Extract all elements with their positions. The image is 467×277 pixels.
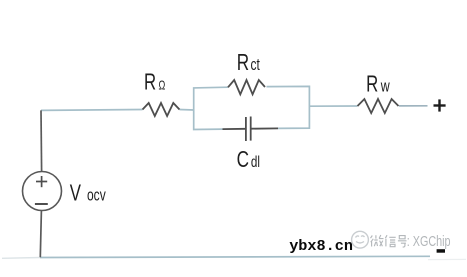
wire: top-left horizontal from corner to R-ohm — [41, 109, 143, 112]
label C-dl — [237, 147, 260, 173]
svg-text:Cdl: Cdl — [237, 147, 260, 173]
wire: parallel box outline (RC box) — [194, 86, 310, 129]
label R-w — [366, 72, 390, 97]
svg-text:ybx8.cn: ybx8.cn — [289, 237, 353, 255]
wire: faint bottom-left stub — [2, 257, 40, 260]
voltage source minus sign — [35, 203, 48, 205]
svg-text:RΩ: RΩ — [144, 70, 165, 95]
label R-ohm — [144, 70, 165, 95]
wire: R-w right lead to plus terminal — [399, 105, 428, 107]
resistor R1 (R-ohm) zigzag — [143, 103, 180, 116]
svg-text:Rct: Rct — [237, 49, 260, 75]
wire: left vertical (source branch) — [40, 110, 41, 257]
minus terminal (battery -) — [437, 249, 445, 253]
watermark wechat-id CJK glyph xin — [385, 235, 395, 247]
resistor R3 (R-w) zigzag — [358, 99, 399, 113]
svg-text:: XGChip: : XGChip — [407, 232, 451, 249]
svg-text:Vocv: Vocv — [70, 181, 107, 206]
wire: R-ohm right lead to box left edge — [180, 109, 195, 112]
voltage source V1 circle — [23, 172, 62, 211]
watermark wechat id latin text — [407, 232, 451, 249]
watermark wechat-id CJK glyph hao — [398, 236, 407, 247]
watermark wechat-id CJK glyph wei — [371, 235, 384, 247]
label V-ocv — [70, 181, 107, 206]
resistor R2 (R-ct) zigzag — [228, 80, 265, 94]
capacitor C1 (C-dl) leads — [223, 127, 279, 130]
wire: faint bottom-right shadow line — [428, 258, 466, 260]
voltage source plus sign — [36, 176, 47, 187]
label R-ct — [237, 49, 260, 75]
capacitor C1 plates — [246, 117, 251, 142]
wire: bottom bus — [40, 256, 430, 257]
watermark logo circle — [352, 231, 369, 248]
svg-text:Rw: Rw — [366, 72, 390, 97]
plus terminal (battery +) — [434, 99, 446, 111]
wire: box right edge to R-w — [309, 105, 357, 107]
